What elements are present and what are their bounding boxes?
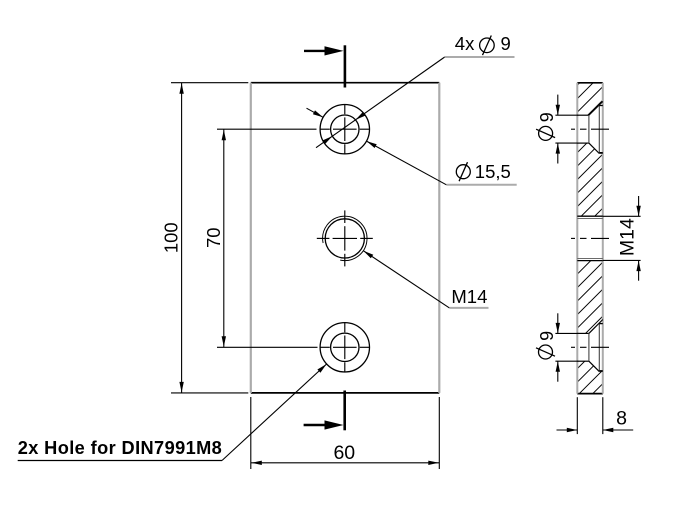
- side view bottom countersunk hole profile: [577, 320, 603, 372]
- side view outline bottom edge: [577, 393, 603, 395]
- label 4x dia9: shoulder line (grey): [445, 56, 515, 58]
- side view right face line (grey): [602, 83, 604, 394]
- label dia15.5: text: [456, 161, 511, 182]
- dimension 60: dimension line with arrows: [251, 461, 439, 465]
- middle M14 tapped hole: thread arc (3/4 circle): [323, 216, 367, 260]
- label dia15.5: shoulder line (grey): [446, 184, 516, 186]
- side dim dia9 top: dimension line with outside arrows: [556, 95, 560, 164]
- side dim M14: rotated text: [617, 218, 639, 256]
- front view plate left edge (grey): [250, 83, 252, 393]
- svg-text:2x Hole for DIN7991M8: 2x Hole for DIN7991M8: [18, 438, 223, 458]
- svg-text:M14: M14: [617, 218, 639, 256]
- label M14 front: leader arrow: [363, 251, 449, 308]
- side dim dia9 bottom: extension lines: [555, 333, 578, 361]
- svg-text:9: 9: [501, 33, 511, 54]
- side dim dia9 bottom: dimension line with outside arrows: [556, 313, 560, 381]
- bottom countersunk hole: dia 15.5 countersink circle: [320, 323, 369, 372]
- top countersunk hole: dia 15.5 countersink circle: [320, 105, 369, 154]
- dimension 100: extension line bottom: [171, 392, 248, 394]
- side dim dia9 top: rotated text: [536, 112, 557, 140]
- dimension 70: extension line top (to hole): [217, 128, 317, 130]
- side dim M14: dimension line with outside arrows: [636, 196, 640, 281]
- dim 8: extension lines: [577, 397, 603, 434]
- side view M14 hole: thread minor lines: [577, 218, 603, 258]
- middle M14 tapped hole: tap drill circle: [325, 219, 364, 258]
- side view bottom hole centerline: [571, 346, 609, 348]
- front view plate outline bottom edge: [251, 392, 439, 394]
- side view M14 hole: band edges: [577, 216, 603, 260]
- label M14 front: text: [451, 286, 487, 307]
- svg-text:8: 8: [616, 408, 627, 430]
- svg-text:60: 60: [333, 442, 355, 464]
- middle hole centermark cross: [317, 210, 373, 266]
- side dim dia9 bottom: rotated text: [536, 331, 557, 359]
- label 2x hole DIN7991M8: text: [18, 438, 223, 458]
- front view plate outline top edge: [251, 82, 439, 84]
- side dim M14: extension lines: [603, 216, 641, 260]
- label M14 front: shoulder line (grey): [449, 307, 488, 309]
- side view hatching: [264, 78, 689, 399]
- svg-text:9: 9: [537, 331, 557, 341]
- section cut line top: [344, 45, 347, 87]
- side view outline top edge: [577, 82, 603, 84]
- side view M14 hole centerline: [571, 237, 609, 239]
- dimension 70: dimension line with arrows: [222, 129, 226, 347]
- side view top countersunk hole profile: [577, 101, 603, 153]
- side dim dia9 top: extension lines: [555, 115, 578, 143]
- svg-text:15,5: 15,5: [475, 161, 511, 182]
- dimension 100: text: [161, 222, 182, 253]
- label 4x dia9: text: [455, 33, 511, 55]
- section cut arrow bottom: [304, 420, 344, 429]
- svg-text:9: 9: [537, 112, 557, 122]
- top hole centermark cross: [320, 105, 369, 154]
- dim 8: dimension line with outside arrows: [557, 428, 634, 432]
- svg-text:70: 70: [203, 227, 224, 248]
- label dia15.5: opposite arrow upper left: [307, 108, 324, 117]
- dimension 60: extension line left: [250, 397, 252, 469]
- dimension 60: text: [333, 442, 355, 464]
- label 4x dia9: leader line through hole with arrows: [316, 57, 445, 148]
- svg-text:M14: M14: [451, 286, 487, 307]
- label 2x hole DIN7991M8: shoulder line: [18, 460, 222, 462]
- top countersunk hole: dia 9 circle: [331, 115, 359, 143]
- section cut line bottom: [343, 391, 346, 431]
- side view left face line (grey): [576, 83, 578, 394]
- label 2x hole DIN7991M8: leader arrow: [222, 364, 327, 461]
- dimension 100: dimension line with arrows: [179, 83, 183, 393]
- bottom hole centermark cross: [320, 323, 369, 372]
- front view plate right edge (grey): [438, 83, 440, 393]
- bottom countersunk hole: dia 9 circle: [331, 333, 359, 361]
- dimension 70: text: [203, 227, 224, 248]
- dim 8: text: [616, 408, 627, 430]
- svg-text:4x: 4x: [455, 33, 475, 54]
- dimension 100: extension line top: [171, 82, 248, 84]
- dimension 70: extension line bottom (to hole): [217, 346, 318, 348]
- svg-text:100: 100: [161, 222, 182, 253]
- dimension 60: extension line right: [438, 397, 440, 469]
- label dia15.5: leader arrow lower right: [367, 141, 447, 185]
- section cut arrow top: [304, 46, 344, 55]
- side view top hole centerline: [571, 128, 609, 130]
